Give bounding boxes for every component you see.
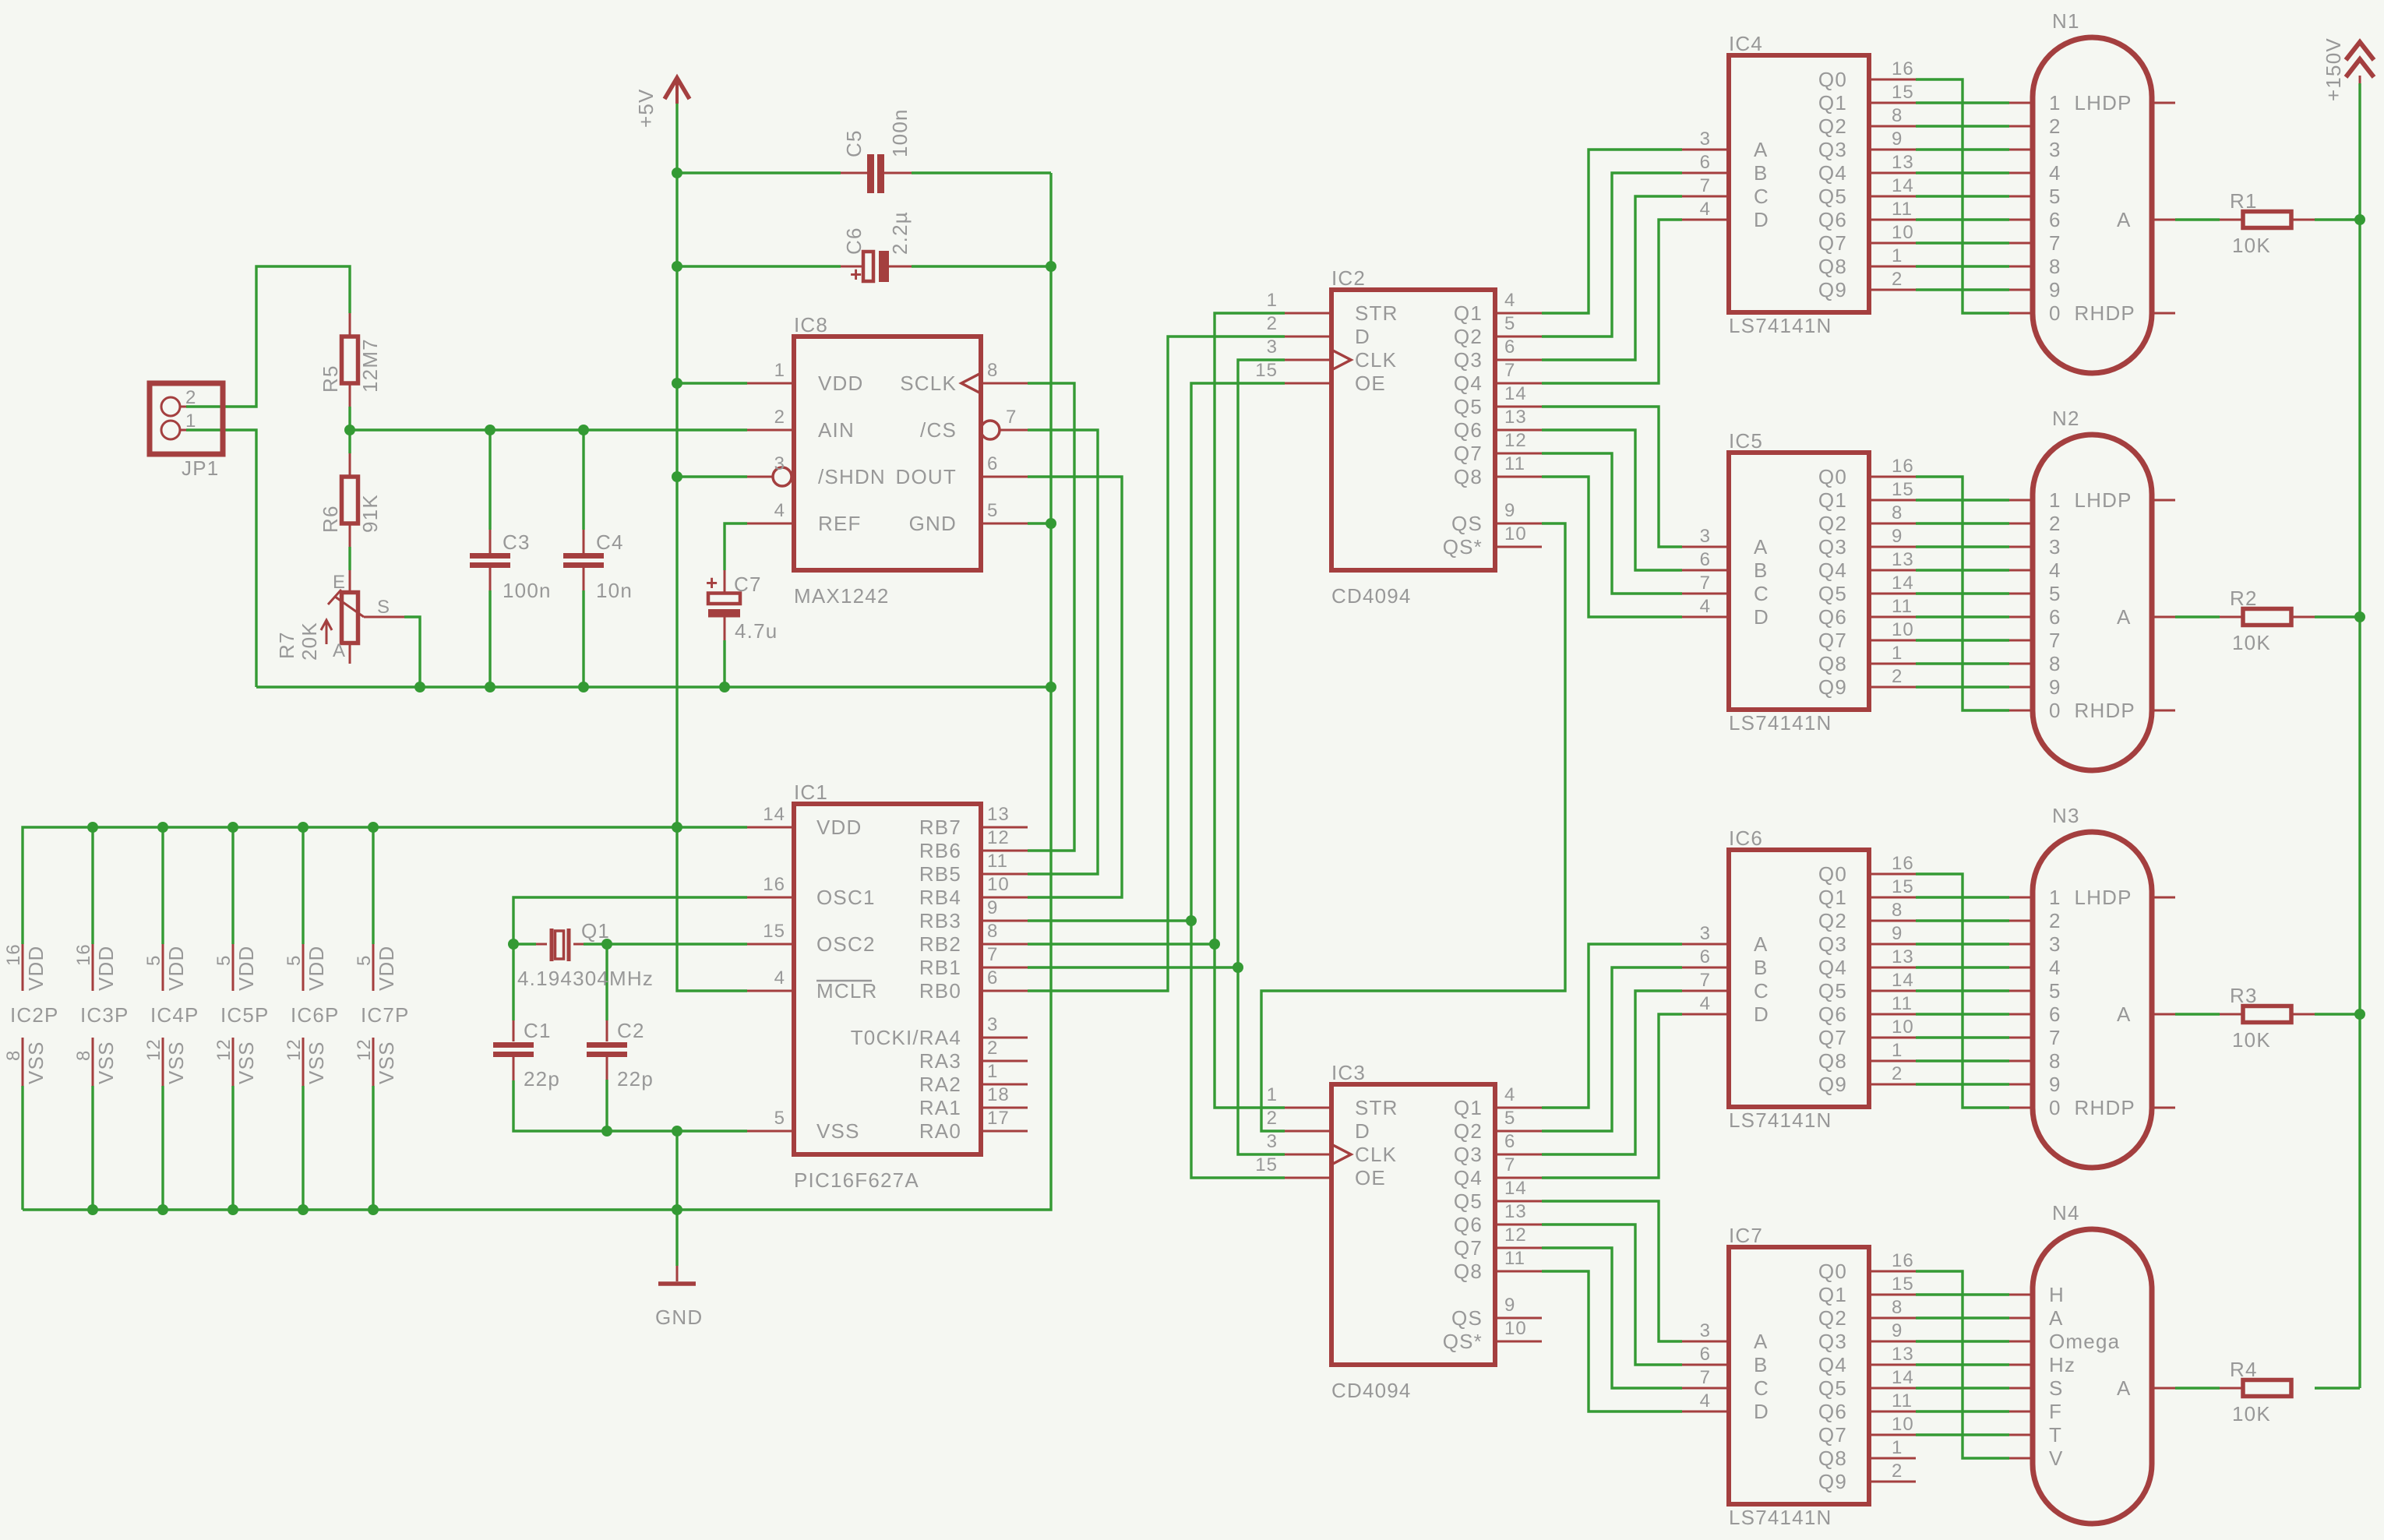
svg-text:1: 1 <box>1892 1040 1903 1061</box>
svg-text:8: 8 <box>987 921 998 942</box>
capacitor C6 electrolytic <box>842 211 912 286</box>
svg-text:Q4: Q4 <box>1818 161 1847 185</box>
wire IC4 Q7 to nixie <box>1916 241 2009 244</box>
svg-text:5: 5 <box>2049 582 2061 605</box>
svg-text:5: 5 <box>354 955 375 966</box>
svg-text:F: F <box>2049 1400 2062 1423</box>
svg-text:7: 7 <box>987 944 998 965</box>
svg-text:D: D <box>1754 1003 1769 1026</box>
N2 left pin stubs <box>2009 499 2033 502</box>
svg-text:Q3: Q3 <box>1454 348 1483 372</box>
svg-text:3: 3 <box>1700 1320 1711 1341</box>
R6 pin stubs <box>349 453 351 477</box>
wire VSS columns IC2P-IC7P <box>21 1086 23 1210</box>
svg-text:15: 15 <box>1892 82 1914 103</box>
wire OSC1 to crystal left <box>513 897 747 944</box>
svg-text:T0CKI/RA4: T0CKI/RA4 <box>851 1026 961 1049</box>
wire C5 right to GND branch <box>912 171 1051 174</box>
wire R3 to +150V rail <box>2315 1013 2360 1015</box>
svg-text:CLK: CLK <box>1355 1143 1397 1166</box>
svg-text:Q4: Q4 <box>1454 1166 1483 1189</box>
svg-text:10K: 10K <box>2232 1028 2271 1052</box>
svg-text:16: 16 <box>1892 456 1914 477</box>
wire R1 to +150V rail <box>2315 218 2360 220</box>
wire IC6 Q1 to nixie <box>1916 896 2009 898</box>
svg-text:100n: 100n <box>503 579 552 602</box>
wire R6 bottom to R7 E <box>348 547 351 570</box>
wire IC5 Q3 to nixie <box>1916 545 2009 548</box>
wire nixie N1 anode to R1 <box>2175 218 2220 220</box>
wire C4 bottom <box>582 590 584 687</box>
svg-text:22p: 22p <box>524 1067 560 1091</box>
svg-text:8: 8 <box>2049 652 2061 675</box>
svg-text:3: 3 <box>2049 932 2061 956</box>
svg-text:Omega: Omega <box>2049 1330 2120 1353</box>
power pins IC5P <box>213 944 270 1086</box>
svg-text:A: A <box>1754 535 1769 559</box>
svg-text:C: C <box>1754 185 1769 208</box>
svg-text:Q5: Q5 <box>1454 1189 1483 1213</box>
svg-text:V: V <box>2049 1447 2064 1470</box>
svg-text:8: 8 <box>1892 1297 1903 1318</box>
svg-text:VSS: VSS <box>305 1041 328 1084</box>
resistor R3 <box>2230 984 2291 1052</box>
capacitor C2 <box>587 1019 654 1091</box>
svg-text:MCLR: MCLR <box>816 979 877 1003</box>
svg-text:OE: OE <box>1355 372 1386 395</box>
junction +150V rail dots <box>2354 214 2365 225</box>
svg-text:14: 14 <box>1504 1178 1527 1199</box>
wire net RB2 STR of IC2 and IC3 <box>1215 313 1285 1108</box>
svg-text:6: 6 <box>1504 1131 1515 1152</box>
svg-text:Q2: Q2 <box>1818 1306 1847 1330</box>
indicator tube N4 <box>2033 1201 2152 1524</box>
svg-text:13: 13 <box>1504 407 1527 428</box>
resistor R6 <box>319 477 382 533</box>
wire IC5 Q4 to nixie <box>1916 569 2009 571</box>
svg-text:IC6P: IC6P <box>291 1003 340 1027</box>
wire C5 left to +5V <box>677 171 841 174</box>
svg-text:IC3: IC3 <box>1331 1061 1366 1084</box>
svg-text:Q1: Q1 <box>1818 886 1847 909</box>
crystal Q1 <box>517 919 654 990</box>
svg-text:GND: GND <box>909 512 957 535</box>
svg-text:VDD: VDD <box>94 946 118 992</box>
mcu IC1 PIC16F627A <box>763 781 1009 1192</box>
svg-text:12: 12 <box>284 1038 305 1061</box>
svg-text:7: 7 <box>1504 360 1515 381</box>
IC3 left pin stubs <box>1285 1107 1331 1109</box>
svg-text:Q4: Q4 <box>1818 1353 1847 1376</box>
svg-text:10: 10 <box>1504 1318 1527 1339</box>
svg-text:RA1: RA1 <box>919 1096 961 1119</box>
IC8 left pin stubs <box>747 382 794 385</box>
svg-text:1 LHDP: 1 LHDP <box>2049 91 2132 115</box>
svg-text:Q3: Q3 <box>1818 535 1847 559</box>
svg-text:A: A <box>1754 932 1769 956</box>
svg-text:1: 1 <box>1892 245 1903 266</box>
svg-text:8: 8 <box>1892 105 1903 126</box>
svg-text:VSS: VSS <box>816 1119 860 1143</box>
svg-text:14: 14 <box>763 804 785 825</box>
IC5 left pin stubs <box>1682 546 1729 548</box>
svg-text:E: E <box>333 572 346 593</box>
svg-text:Q0: Q0 <box>1818 465 1847 488</box>
svg-text:R4: R4 <box>2230 1358 2258 1381</box>
svg-text:15: 15 <box>763 921 785 942</box>
wire nixie N4 anode to R4 <box>2175 1387 2220 1389</box>
svg-text:RA2: RA2 <box>919 1073 961 1096</box>
svg-text:4: 4 <box>774 500 785 521</box>
svg-text:STR: STR <box>1355 301 1398 325</box>
svg-text:D: D <box>1355 325 1370 348</box>
svg-text:N2: N2 <box>2052 407 2080 430</box>
svg-text:12: 12 <box>1504 1225 1527 1246</box>
wire IC7 Q1 to nixie <box>1916 1293 2009 1295</box>
svg-text:2: 2 <box>1267 1108 1278 1129</box>
IC7 left pin stubs <box>1682 1341 1729 1343</box>
svg-text:B: B <box>1754 1353 1769 1376</box>
power pins IC7P <box>354 944 410 1086</box>
svg-text:7: 7 <box>2049 629 2061 652</box>
svg-text:2: 2 <box>1892 666 1903 687</box>
wire IC3 Q3 to driver input <box>1542 991 1682 1154</box>
svg-text:Q2: Q2 <box>1818 512 1847 535</box>
svg-text:VDD: VDD <box>164 946 188 992</box>
svg-text:4: 4 <box>2049 559 2061 582</box>
svg-text:Q1: Q1 <box>1454 1096 1483 1119</box>
svg-text:9: 9 <box>2049 278 2061 301</box>
svg-text:4.7u: 4.7u <box>735 619 778 643</box>
svg-text:Q6: Q6 <box>1818 208 1847 231</box>
wire IC2 Q3 to driver input <box>1542 196 1682 360</box>
svg-text:/CS: /CS <box>920 418 957 442</box>
svg-text:D: D <box>1754 208 1769 231</box>
svg-text:B: B <box>1754 559 1769 582</box>
svg-text:9: 9 <box>1504 500 1515 521</box>
svg-text:VSS: VSS <box>94 1041 118 1084</box>
svg-text:STR: STR <box>1355 1096 1398 1119</box>
svg-text:Q1: Q1 <box>1454 301 1483 325</box>
svg-text:7: 7 <box>2049 231 2061 255</box>
svg-text:8: 8 <box>1892 900 1903 921</box>
svg-text:8: 8 <box>2049 1049 2061 1073</box>
svg-text:1: 1 <box>1892 643 1903 664</box>
wire IC2 Q4 to driver input <box>1542 220 1682 383</box>
svg-text:R6: R6 <box>319 505 342 533</box>
svg-text:91K: 91K <box>358 494 382 533</box>
svg-text:LS74141N: LS74141N <box>1729 711 1832 735</box>
svg-text:4: 4 <box>774 967 785 988</box>
wire IC7 Q4 to nixie <box>1916 1363 2009 1366</box>
wire IC4 Q3 to nixie <box>1916 148 2009 150</box>
svg-text:13: 13 <box>987 804 1010 825</box>
svg-text:8: 8 <box>3 1050 24 1061</box>
wire IC7 Q2 to nixie <box>1916 1316 2009 1319</box>
svg-text:Q7: Q7 <box>1454 1236 1483 1260</box>
svg-text:QS: QS <box>1451 512 1483 535</box>
svg-text:7: 7 <box>1006 407 1017 428</box>
resistor R4 <box>2230 1358 2291 1425</box>
svg-text:R2: R2 <box>2230 587 2258 610</box>
svg-text:RB1: RB1 <box>919 956 961 979</box>
wire IC5 Q0 to nixie <box>1916 477 2009 710</box>
svg-text:RB6: RB6 <box>919 839 961 862</box>
svg-text:3: 3 <box>2049 138 2061 161</box>
svg-text:VDD: VDD <box>375 946 398 992</box>
svg-text:14: 14 <box>1892 573 1914 594</box>
svg-text:1 LHDP: 1 LHDP <box>2049 886 2132 909</box>
svg-text:SCLK: SCLK <box>900 372 957 395</box>
svg-text:2: 2 <box>1267 313 1278 334</box>
shift register IC2 CD4094 <box>1255 266 1526 608</box>
wire IC4 Q0 to nixie <box>1916 79 2009 313</box>
svg-text:9: 9 <box>1892 1320 1903 1341</box>
svg-text:LS74141N: LS74141N <box>1729 314 1832 337</box>
svg-text:11: 11 <box>1504 453 1525 474</box>
svg-text:4: 4 <box>1504 1084 1515 1105</box>
svg-text:0 RHDP: 0 RHDP <box>2049 1096 2135 1119</box>
wire IC6 Q5 to nixie <box>1916 989 2009 992</box>
wire R4 to +150V rail <box>2315 1387 2360 1389</box>
svg-text:8: 8 <box>987 360 998 381</box>
wire IC6 Q4 to nixie <box>1916 966 2009 968</box>
svg-text:MAX1242: MAX1242 <box>794 584 890 608</box>
svg-text:1: 1 <box>774 360 785 381</box>
IC1 right pin stubs <box>981 826 1028 829</box>
wire IC6 Q3 to nixie <box>1916 943 2009 945</box>
svg-text:7: 7 <box>2049 1026 2061 1049</box>
wire IC2 Q5 to driver input <box>1542 407 1682 547</box>
svg-text:Q3: Q3 <box>1454 1143 1483 1166</box>
IC1 left pin stubs <box>747 826 794 829</box>
junction AIN rail dots <box>344 425 355 435</box>
wire IC3 Q6 to driver input <box>1542 1225 1682 1365</box>
svg-text:RA0: RA0 <box>919 1119 961 1143</box>
svg-text:Q0: Q0 <box>1818 862 1847 886</box>
svg-text:4: 4 <box>2049 161 2061 185</box>
svg-text:16: 16 <box>763 874 785 895</box>
power +150V <box>2322 37 2374 101</box>
wire net SCLK IC8 pin8 to IC1 RB6 <box>1028 383 1074 851</box>
svg-text:6: 6 <box>1504 337 1515 358</box>
svg-text:9: 9 <box>2049 1073 2061 1096</box>
svg-text:14: 14 <box>1892 175 1914 196</box>
svg-text:14: 14 <box>1892 970 1914 991</box>
resistor R5 <box>319 337 382 393</box>
wire IC3 Q2 to driver input <box>1542 967 1682 1131</box>
svg-text:C4: C4 <box>596 530 624 554</box>
svg-text:Q3: Q3 <box>1818 1330 1847 1353</box>
svg-text:2: 2 <box>1892 1461 1903 1482</box>
svg-text:RB7: RB7 <box>919 816 961 839</box>
capacitor C3 <box>470 530 552 602</box>
svg-text:Q7: Q7 <box>1818 1423 1847 1447</box>
wire IC6 Q2 to nixie <box>1916 919 2009 922</box>
N1 left pin stubs <box>2009 102 2033 104</box>
svg-text:16: 16 <box>1892 1250 1914 1271</box>
svg-text:3: 3 <box>1267 1131 1278 1152</box>
svg-text:2: 2 <box>2049 512 2061 535</box>
wire IC4 Q4 to nixie <box>1916 171 2009 174</box>
svg-text:D: D <box>1754 1400 1769 1423</box>
svg-text:+: + <box>850 263 862 286</box>
wire IC5 Q8 to nixie <box>1916 662 2009 664</box>
svg-text:5: 5 <box>2049 185 2061 208</box>
svg-text:N1: N1 <box>2052 9 2080 33</box>
svg-text:9: 9 <box>1892 129 1903 150</box>
svg-text:4.194304MHz: 4.194304MHz <box>517 967 654 990</box>
wire GND rail bottom with C5/C6 branch vertical <box>23 173 1051 1210</box>
svg-text:5: 5 <box>1504 1108 1515 1129</box>
svg-text:B: B <box>1754 956 1769 979</box>
svg-text:6: 6 <box>1700 549 1711 570</box>
wire IC3 Q1 to driver input <box>1542 944 1682 1108</box>
junction VSS rail dots <box>601 1126 612 1136</box>
svg-text:IC4P: IC4P <box>150 1003 199 1027</box>
svg-text:N3: N3 <box>2052 804 2080 827</box>
svg-text:12: 12 <box>1504 430 1527 451</box>
svg-text:REF: REF <box>818 512 862 535</box>
svg-text:Q1: Q1 <box>1818 91 1847 115</box>
IC8 right pin stubs <box>981 382 1028 385</box>
svg-text:RB5: RB5 <box>919 862 961 886</box>
svg-text:2: 2 <box>1892 1063 1903 1084</box>
svg-text:A: A <box>2049 1306 2064 1330</box>
svg-text:4: 4 <box>1700 596 1711 617</box>
svg-text:RB4: RB4 <box>919 886 961 909</box>
wire IC3 Q5 to driver input <box>1542 1201 1682 1341</box>
svg-text:IC7P: IC7P <box>361 1003 410 1027</box>
wire nixie N3 anode to R3 <box>2175 1013 2220 1015</box>
svg-text:LS74141N: LS74141N <box>1729 1506 1832 1529</box>
svg-text:5: 5 <box>143 955 164 966</box>
svg-text:15: 15 <box>1892 876 1914 897</box>
power pins IC6P <box>284 944 340 1086</box>
svg-text:Q5: Q5 <box>1454 395 1483 418</box>
svg-text:Q2: Q2 <box>1818 909 1847 932</box>
svg-text:+: + <box>706 571 718 594</box>
wire IC4 Q8 to nixie <box>1916 265 2009 267</box>
nixie tube N1 <box>2033 9 2152 373</box>
svg-text:10: 10 <box>1892 619 1914 640</box>
svg-text:4: 4 <box>1700 1390 1711 1411</box>
wire IC6 Q9 to nixie <box>1916 1083 2009 1085</box>
svg-text:OSC1: OSC1 <box>816 886 876 909</box>
svg-text:C: C <box>1754 582 1769 605</box>
driver IC7 LS74141N <box>1700 1224 1914 1529</box>
svg-text:OSC2: OSC2 <box>816 932 876 956</box>
N3 right pin stubs <box>2152 897 2175 899</box>
wire VDD +5V stem to MCLR <box>677 104 747 991</box>
svg-text:VDD: VDD <box>305 946 328 992</box>
svg-text:IC4: IC4 <box>1729 32 1763 55</box>
IC2 left pin stubs <box>1285 312 1331 315</box>
svg-text:IC2P: IC2P <box>10 1003 59 1027</box>
power pins IC4P <box>143 944 199 1086</box>
svg-text:PIC16F627A: PIC16F627A <box>794 1168 919 1192</box>
wire IC7 Q0 to nixie <box>1916 1271 2009 1458</box>
svg-text:10: 10 <box>1892 1017 1914 1038</box>
svg-text:R5: R5 <box>319 365 342 393</box>
wire C6 right to GND branch <box>912 265 1051 267</box>
svg-text:Q0: Q0 <box>1818 68 1847 91</box>
trimmer R7 <box>275 572 390 661</box>
svg-text:6: 6 <box>1700 152 1711 173</box>
svg-text:7: 7 <box>1700 175 1711 196</box>
svg-text:8: 8 <box>73 1050 94 1061</box>
junction GND rail dots <box>87 1204 98 1215</box>
R2 pin stubs <box>2220 616 2243 618</box>
JP1 pin stubs <box>180 406 186 408</box>
svg-text:11: 11 <box>1892 1390 1913 1411</box>
svg-text:3: 3 <box>987 1014 998 1035</box>
svg-text:2.2µ: 2.2µ <box>888 211 912 255</box>
svg-text:9: 9 <box>1892 526 1903 547</box>
svg-text:12: 12 <box>213 1038 235 1061</box>
svg-text:14: 14 <box>1892 1367 1914 1388</box>
svg-text:22p: 22p <box>617 1067 654 1091</box>
svg-text:2: 2 <box>987 1038 998 1059</box>
capacitor C1 <box>493 1019 560 1091</box>
svg-text:9: 9 <box>2049 675 2061 699</box>
svg-text:VDD: VDD <box>816 816 862 839</box>
N1 right pin stubs <box>2152 102 2175 104</box>
wire IC8 VDD to +5V <box>677 382 747 384</box>
svg-text:RA3: RA3 <box>919 1049 961 1073</box>
svg-text:QS: QS <box>1451 1306 1483 1330</box>
svg-text:6: 6 <box>987 967 998 988</box>
svg-text:7: 7 <box>1700 1367 1711 1388</box>
wire C2 bottom <box>605 1080 608 1131</box>
svg-text:A: A <box>2117 605 2132 629</box>
wire net RB3 OE of IC2 and IC3 <box>1191 383 1285 1178</box>
C7 pin stubs <box>724 570 726 593</box>
wire net QS cascade IC2 QS to IC3 D <box>1261 523 1565 1131</box>
svg-text:T: T <box>2049 1423 2062 1447</box>
svg-text:Q9: Q9 <box>1818 675 1847 699</box>
wire IC4 Q1 to nixie <box>1916 101 2009 104</box>
wire IC4 Q9 to nixie <box>1916 288 2009 291</box>
svg-text:Q2: Q2 <box>1454 325 1483 348</box>
svg-text:Q5: Q5 <box>1818 185 1847 208</box>
svg-text:R7: R7 <box>275 631 298 659</box>
wire C1 top <box>512 944 514 1020</box>
IC5 right pin stubs <box>1869 476 1916 478</box>
svg-text:2: 2 <box>774 407 785 428</box>
svg-text:C2: C2 <box>617 1019 645 1042</box>
power pins IC2P <box>3 943 59 1086</box>
IC7 right pin stubs <box>1869 1270 1916 1273</box>
svg-text:1: 1 <box>1267 1084 1278 1105</box>
connector JP1 <box>150 383 223 480</box>
svg-text:Q7: Q7 <box>1818 231 1847 255</box>
svg-text:13: 13 <box>1892 152 1914 173</box>
svg-text:VDD: VDD <box>818 372 864 395</box>
svg-text:7: 7 <box>1504 1154 1515 1175</box>
svg-text:3: 3 <box>2049 535 2061 559</box>
svg-text:10: 10 <box>1504 523 1527 544</box>
svg-text:6: 6 <box>2049 605 2061 629</box>
svg-text:11: 11 <box>987 851 1008 872</box>
svg-text:1: 1 <box>1892 1437 1903 1458</box>
svg-text:10K: 10K <box>2232 1402 2271 1425</box>
svg-text:4: 4 <box>1700 199 1711 220</box>
svg-text:Q4: Q4 <box>1454 372 1483 395</box>
svg-text:16: 16 <box>1892 853 1914 874</box>
capacitor C7 electrolytic <box>706 571 778 643</box>
svg-text:3: 3 <box>774 453 785 474</box>
